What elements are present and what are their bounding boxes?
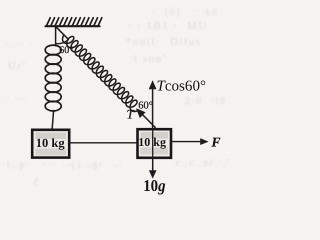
svg-text:10 kg: 10 kg bbox=[36, 136, 66, 150]
bleed-through text bottom right bbox=[176, 158, 230, 169]
svg-text:60°: 60° bbox=[138, 100, 153, 111]
bleed-through mark left Ur bbox=[8, 60, 27, 72]
F arrow shaft bbox=[172, 141, 202, 143]
10g arrow shaft bbox=[152, 160, 154, 172]
bleed-through specks left top bbox=[4, 39, 33, 50]
string between blocks bbox=[69, 142, 138, 144]
block left 10 kg bbox=[32, 130, 69, 158]
bleed-through text bottom middle bbox=[62, 161, 124, 172]
block right 10 kg bbox=[138, 129, 172, 158]
svg-text:F: F bbox=[211, 135, 221, 150]
svg-text:60°: 60° bbox=[59, 45, 73, 56]
ceiling hatching bbox=[47, 18, 102, 26]
Tcos60 arrow shaft bbox=[152, 88, 154, 128]
wire spring S1 to left block bbox=[52, 111, 53, 129]
10g arrowhead bbox=[149, 170, 157, 178]
F arrowhead bbox=[200, 138, 208, 145]
svg-text:T: T bbox=[127, 107, 135, 122]
vertical hanger line from ceiling bbox=[55, 27, 57, 46]
string lower segment to right block bbox=[138, 110, 155, 128]
diagonal string upper segment bbox=[56, 27, 67, 38]
spring S1 vertical coil bbox=[45, 45, 61, 111]
bleed-through text line top 0 bbox=[152, 7, 219, 18]
spring S2 diagonal coil bbox=[63, 35, 139, 112]
bleed-through mark c bottom bbox=[34, 177, 40, 188]
bleed-through specks right mid bbox=[185, 96, 226, 107]
T arrowhead bbox=[136, 108, 146, 118]
bleed-through specks left mid bbox=[2, 94, 28, 104]
bleed-through text line top 3 bbox=[134, 53, 167, 65]
bleed-through text line top 2 bbox=[126, 36, 202, 48]
bleed-through text bottom left bbox=[2, 160, 104, 171]
ceiling baseline bbox=[46, 25, 100, 27]
Tcos60 arrowhead bbox=[149, 80, 157, 89]
angle arc 60 deg at ceiling bbox=[56, 40, 69, 44]
svg-text:10g: 10g bbox=[143, 176, 165, 195]
bleed-through text line top 1 bbox=[128, 20, 208, 32]
svg-text:Tcos60°: Tcos60° bbox=[157, 78, 207, 94]
